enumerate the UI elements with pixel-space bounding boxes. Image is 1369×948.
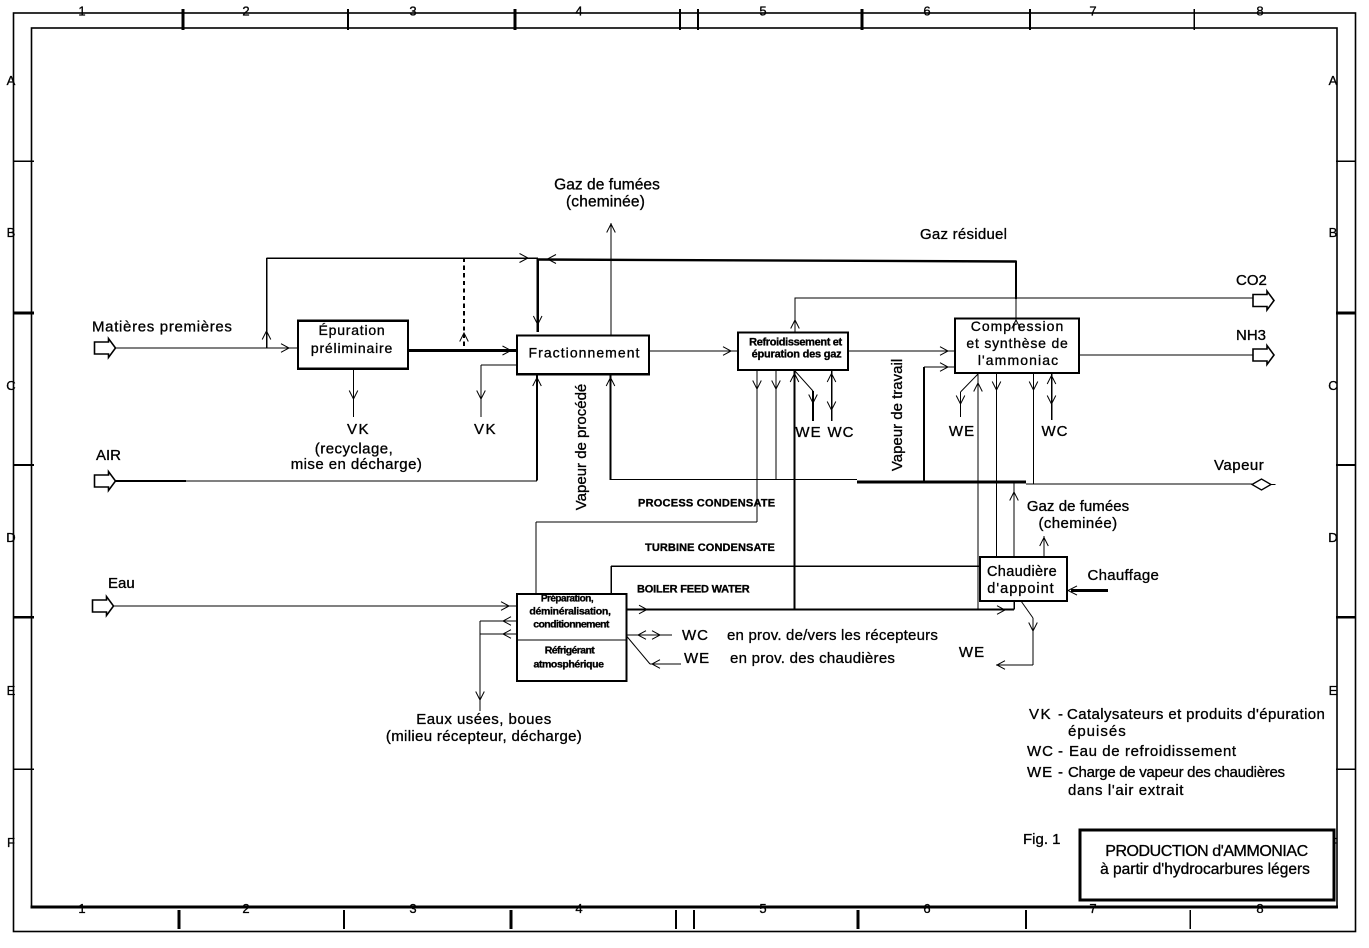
wire drop into Fractionnement top	[533, 259, 542, 332]
wire NH3 line	[1079, 354, 1253, 356]
label PROCESS CONDENSATE	[638, 498, 775, 510]
svg-text:WE: WE	[949, 423, 975, 440]
wire steam header thick segment	[857, 481, 1026, 484]
label Gaz de fumees lower	[1027, 498, 1129, 515]
svg-text:A: A	[7, 73, 16, 88]
label Matieres premieres	[92, 319, 233, 336]
wire steam header right segment	[1026, 483, 1252, 485]
left ruler zone letter B	[7, 225, 16, 240]
bottom ruler zone number 3	[409, 901, 416, 916]
label cheminee top	[566, 194, 645, 211]
label Vapeur right	[1214, 457, 1264, 474]
left ruler tick at y=161	[14, 160, 34, 162]
wire steam header mid segment	[611, 479, 858, 481]
box Refroidissement et epuration des gaz	[738, 333, 848, 371]
svg-text:WC: WC	[1042, 423, 1069, 440]
svg-text:Matières premières: Matières premières	[92, 319, 233, 336]
wire Refroidissement to Compression	[848, 347, 955, 356]
label BOILER FEED WATER	[637, 584, 750, 596]
output block arrow CO2	[1253, 291, 1274, 310]
legend VK line2	[1068, 723, 1127, 740]
svg-text:3: 3	[409, 4, 416, 19]
top ruler zone number 5	[759, 4, 766, 19]
wire Chauffage into Chaudiere	[1068, 586, 1108, 595]
legend WE line1	[1027, 764, 1285, 781]
label Gaz de fumees top	[554, 177, 660, 194]
svg-text:Préparation,: Préparation,	[541, 594, 594, 605]
box Fractionnement	[517, 336, 649, 375]
bottom ruler tick at x=515	[510, 910, 513, 929]
top ruler tick at x=862	[861, 9, 864, 30]
svg-text:B: B	[7, 225, 16, 240]
svg-text:Épuration: Épuration	[319, 322, 386, 338]
svg-text:-: -	[1058, 764, 1063, 781]
svg-text:Gaz résiduel: Gaz résiduel	[920, 226, 1007, 243]
wire drop Compression to Chaudiere	[992, 373, 1001, 557]
svg-text:(cheminée): (cheminée)	[566, 194, 645, 211]
input block arrow AIR	[95, 472, 116, 491]
svg-text:Vapeur de procédé: Vapeur de procédé	[573, 384, 590, 510]
legend VK line1	[1029, 706, 1325, 723]
bottom ruler tick at x=183	[178, 910, 181, 929]
top ruler zone number 8	[1256, 4, 1263, 19]
label WE near Chaudiere	[959, 644, 985, 661]
svg-text:(recyclage,: (recyclage,	[315, 441, 393, 458]
svg-text:Eau de refroidissement: Eau de refroidissement	[1069, 743, 1237, 760]
label VK under Epuration	[347, 421, 370, 438]
left ruler tick at y=313	[14, 312, 34, 315]
svg-text:(milieu récepteur, décharge): (milieu récepteur, décharge)	[386, 728, 582, 745]
svg-text:A: A	[1329, 73, 1338, 88]
wire Vapeur de travail riser	[924, 363, 955, 481]
svg-text:1: 1	[78, 901, 85, 916]
left ruler zone letter E	[7, 683, 16, 698]
wire Fractionnement to Refroidissement	[649, 347, 738, 356]
wire drop Compression to steam header	[1029, 373, 1038, 484]
svg-text:Vapeur de travail: Vapeur de travail	[889, 359, 906, 471]
top ruler zone number 7	[1089, 4, 1096, 19]
svg-text:-: -	[1058, 706, 1063, 723]
right ruler zone letter B	[1329, 225, 1338, 240]
top ruler tick at x=515	[514, 9, 517, 30]
svg-text:PROCESS CONDENSATE: PROCESS CONDENSATE	[638, 498, 775, 510]
svg-text:Vapeur: Vapeur	[1214, 457, 1264, 474]
label Chauffage	[1088, 567, 1160, 584]
label Vapeur de travail (rotated)	[889, 359, 906, 471]
svg-text:8: 8	[1256, 901, 1263, 916]
label WE en prov chaudieres	[684, 650, 895, 667]
label TURBINE CONDENSATE	[645, 542, 775, 554]
wire WE diagonal into Preparation	[627, 636, 682, 668]
text Compression	[966, 318, 1068, 368]
wire steam riser into Fractionnement	[606, 374, 615, 480]
top ruler zone number 3	[409, 4, 416, 19]
label WC under Compression	[1042, 423, 1069, 440]
svg-text:6: 6	[923, 4, 930, 19]
wire waste water left stub 2	[480, 630, 517, 639]
right ruler tick at y=161	[1336, 160, 1355, 162]
svg-text:Catalysateurs et produits d'ép: Catalysateurs et produits d'épuration	[1067, 706, 1325, 723]
wire VK stub left of Fractionnement	[477, 365, 517, 417]
svg-text:Gaz de fumées: Gaz de fumées	[1027, 498, 1129, 515]
label Gaz residuel	[920, 226, 1007, 243]
svg-text:WC: WC	[1027, 743, 1054, 760]
left ruler zone letter C	[6, 378, 15, 393]
label recyclage	[315, 441, 393, 458]
label Eaux usees boues	[416, 711, 551, 728]
svg-text:déminéralisation,: déminéralisation,	[529, 606, 611, 618]
label mise en decharge	[291, 456, 423, 473]
bottom ruler tick at x=862	[857, 910, 860, 929]
divider Preparation box	[517, 639, 627, 641]
text Refroidissement	[749, 337, 842, 361]
svg-text:8: 8	[1256, 4, 1263, 19]
svg-text:à partir d'hydrocarbures léger: à partir d'hydrocarbures légers	[1100, 861, 1310, 878]
svg-text:PRODUCTION d'AMMONIAC: PRODUCTION d'AMMONIAC	[1105, 843, 1308, 860]
svg-text:CO2: CO2	[1236, 272, 1267, 289]
label VK under Fractionnement stub	[474, 421, 497, 438]
svg-text:D: D	[1328, 530, 1337, 545]
right ruler zone letter F	[1329, 835, 1337, 850]
svg-text:préliminaire: préliminaire	[311, 340, 393, 356]
wire BFW riser to Refroidissement (thick)	[790, 370, 799, 609]
bottom ruler tick at x=698	[693, 910, 695, 929]
wire VK stub under Epuration	[349, 369, 358, 417]
top ruler zone number 2	[242, 4, 249, 19]
bottom ruler zone number 8	[1256, 901, 1263, 916]
top ruler tick at x=1194	[1193, 9, 1195, 30]
left ruler tick at y=617	[14, 616, 34, 619]
svg-text:Charge de vapeur des chaudière: Charge de vapeur des chaudières	[1068, 764, 1285, 781]
wire chimney from Fractionnement	[607, 223, 616, 336]
svg-text:AIR: AIR	[96, 447, 121, 464]
inner border thick bottom edge	[31, 905, 1339, 908]
left ruler zone letter F	[7, 835, 15, 850]
svg-text:dans l'air extrait: dans l'air extrait	[1068, 782, 1184, 799]
right ruler zone letter A	[1329, 73, 1338, 88]
label WC en prov recepteurs	[682, 627, 938, 644]
left ruler tick at y=465	[14, 464, 34, 466]
svg-text:Refroidissement et: Refroidissement et	[749, 337, 842, 349]
dashed bypass line	[460, 258, 469, 350]
svg-text:4: 4	[575, 4, 582, 19]
wire WC stub under Refroidissement	[827, 370, 836, 421]
wire air riser into Fractionnement	[533, 374, 542, 480]
top ruler tick at x=1030	[1029, 9, 1031, 30]
right ruler zone letter E	[1329, 683, 1338, 698]
wire WE riser Compression to BFW line	[974, 373, 983, 609]
bottom ruler tick at x=348	[343, 910, 345, 929]
svg-text:WC: WC	[828, 424, 855, 441]
bottom ruler zone number 2	[242, 901, 249, 916]
svg-text:Chauffage: Chauffage	[1088, 567, 1160, 584]
svg-text:en prov. de/vers les récepteur: en prov. de/vers les récepteurs	[727, 627, 938, 644]
box Chaudiere d appoint	[980, 557, 1067, 601]
label WC under Refroidissement	[828, 424, 855, 441]
wire recycle header left segment	[267, 257, 539, 259]
left ruler zone letter A	[7, 73, 16, 88]
svg-text:VK: VK	[1029, 706, 1052, 723]
svg-text:C: C	[6, 378, 15, 393]
svg-text:en prov. des chaudières: en prov. des chaudières	[730, 650, 895, 667]
svg-text:WE: WE	[684, 650, 710, 667]
svg-text:WE: WE	[959, 644, 985, 661]
svg-text:BOILER FEED WATER: BOILER FEED WATER	[637, 584, 750, 596]
label NH3	[1236, 327, 1266, 344]
bottom ruler tick at x=1030	[1025, 910, 1027, 929]
svg-text:conditionnement: conditionnement	[533, 619, 610, 631]
svg-text:Chaudière: Chaudière	[987, 564, 1057, 580]
wire Matieres premieres to Epuration	[116, 344, 299, 353]
svg-text:B: B	[1329, 225, 1338, 240]
text Refrigerant atmospherique	[533, 645, 604, 671]
svg-text:C: C	[1328, 378, 1337, 393]
title block box	[1080, 830, 1334, 900]
label AIR	[96, 447, 121, 464]
top ruler tick at x=183	[182, 9, 185, 30]
svg-text:E: E	[7, 683, 16, 698]
svg-text:WE: WE	[1027, 764, 1053, 781]
output diamond Vapeur	[1252, 479, 1276, 490]
bottom ruler zone number 5	[759, 901, 766, 916]
wire waste water left stub 1	[480, 617, 517, 626]
box Preparation demineralisation conditionnement	[517, 594, 627, 681]
svg-text:d'appoint: d'appoint	[987, 581, 1054, 597]
label milieu recepteur	[386, 728, 582, 745]
svg-text:VK: VK	[474, 421, 497, 438]
svg-text:4: 4	[575, 901, 582, 916]
title block text	[1100, 843, 1310, 878]
text Fractionnement	[529, 345, 641, 361]
svg-text:Eau: Eau	[108, 575, 135, 592]
svg-text:mise en décharge): mise en décharge)	[291, 456, 423, 473]
wire Refroidissement to CO2 riser	[791, 298, 800, 333]
wire CO2 line	[795, 297, 1253, 299]
wire AIR thick stub	[116, 480, 187, 482]
svg-text:WC: WC	[682, 627, 709, 644]
box Compression et synthese de l ammoniac	[955, 319, 1079, 374]
wire WE branch from Compression	[956, 374, 978, 417]
bottom ruler tick at x=680	[675, 910, 677, 929]
svg-text:VK: VK	[347, 421, 370, 438]
svg-text:7: 7	[1089, 4, 1096, 19]
wire process condensate line	[536, 522, 757, 594]
wire WE branch from Chaudiere	[996, 601, 1037, 669]
svg-text:6: 6	[923, 901, 930, 916]
label Eau	[108, 575, 135, 592]
svg-text:épuisés: épuisés	[1068, 723, 1127, 740]
svg-text:NH3: NH3	[1236, 327, 1266, 344]
wire turbine condensate line	[611, 566, 980, 594]
top ruler tick at x=680	[679, 9, 681, 30]
legend WC	[1027, 743, 1237, 760]
left ruler zone letter D	[6, 530, 15, 545]
wire boiler feed water line (thick)	[627, 601, 1015, 614]
top ruler tick at x=348	[347, 9, 349, 30]
svg-text:2: 2	[242, 901, 249, 916]
svg-text:Fractionnement: Fractionnement	[529, 345, 641, 361]
input block arrow Eau	[93, 597, 114, 616]
label cheminee lower	[1038, 515, 1117, 532]
svg-text:épuration des gaz: épuration des gaz	[752, 349, 842, 361]
svg-text:E: E	[1329, 683, 1338, 698]
wire WC double arrow line	[627, 631, 673, 640]
bottom ruler zone number 6	[923, 901, 930, 916]
label WE under Compression	[949, 423, 975, 440]
output block arrow NH3	[1253, 346, 1274, 365]
bottom ruler tick at x=1194	[1189, 910, 1191, 929]
svg-text:Fig. 1: Fig. 1	[1023, 831, 1061, 848]
arrowhead on header pointing left	[548, 255, 557, 264]
box Epuration preliminaire	[298, 321, 408, 369]
svg-text:(cheminée): (cheminée)	[1038, 515, 1117, 532]
svg-text:Gaz de fumées: Gaz de fumées	[554, 177, 660, 194]
svg-text:1: 1	[78, 4, 85, 19]
svg-text:TURBINE CONDENSATE: TURBINE CONDENSATE	[645, 542, 775, 554]
wire recycle riser at Epuration	[262, 258, 271, 348]
arrowhead on header pointing right	[520, 254, 529, 263]
legend WE line2	[1068, 782, 1184, 799]
wire WC stub under Compression	[1047, 373, 1056, 420]
wire AIR line to Fractionnement riser	[186, 480, 537, 482]
svg-text:-: -	[1058, 743, 1063, 760]
svg-text:F: F	[7, 835, 15, 850]
svg-text:3: 3	[409, 901, 416, 916]
label Fig 1	[1023, 831, 1061, 848]
svg-text:WE: WE	[795, 424, 821, 441]
text Epuration preliminaire	[311, 322, 393, 356]
svg-text:Compression: Compression	[971, 318, 1064, 334]
svg-text:2: 2	[242, 4, 249, 19]
svg-text:l'ammoniac: l'ammoniac	[978, 352, 1059, 368]
svg-text:D: D	[6, 530, 15, 545]
svg-text:5: 5	[759, 901, 766, 916]
wire Eau to Preparation	[114, 602, 518, 611]
label Vapeur de procede (rotated)	[573, 384, 590, 510]
wire residual gas header right segment	[538, 260, 1016, 262]
top ruler tick at x=698	[697, 9, 699, 30]
left ruler tick at y=769	[14, 768, 34, 770]
svg-text:et synthèse de: et synthèse de	[966, 335, 1068, 351]
svg-text:Eaux usées, boues: Eaux usées, boues	[416, 711, 551, 728]
right ruler tick at y=769	[1336, 768, 1355, 770]
label WE under Refroidissement	[795, 424, 821, 441]
wire arrow to Gaz de fumees label	[1040, 536, 1049, 557]
right ruler tick at y=617	[1336, 616, 1355, 619]
wire waste water drop	[476, 621, 485, 711]
bottom ruler zone number 1	[78, 901, 85, 916]
right ruler zone letter C	[1328, 378, 1337, 393]
svg-text:Réfrigérant: Réfrigérant	[545, 645, 596, 657]
wire condensate drop 1 (process)	[753, 370, 762, 522]
input block arrow Matieres premieres	[95, 339, 116, 358]
wire condensate drop 2	[772, 370, 781, 480]
wire WE branch from Refroidissement	[795, 371, 817, 421]
wire Epuration to Fractionnement (thick)	[408, 346, 517, 355]
top ruler zone number 6	[923, 4, 930, 19]
right ruler tick at y=465	[1336, 464, 1355, 466]
wire chimney from Chaudiere	[1010, 483, 1019, 557]
wire residual gas riser thick part	[1015, 261, 1017, 300]
right ruler zone letter D	[1328, 530, 1337, 545]
wire residual gas riser thin part	[1012, 299, 1021, 329]
top ruler zone number 4	[575, 4, 582, 19]
bottom ruler zone number 7	[1089, 901, 1096, 916]
svg-text:7: 7	[1089, 901, 1096, 916]
bottom ruler zone number 4	[575, 901, 582, 916]
top ruler zone number 1	[78, 4, 85, 19]
text Chaudiere d appoint	[987, 564, 1057, 597]
right ruler tick at y=313	[1336, 312, 1355, 315]
svg-text:5: 5	[759, 4, 766, 19]
text Preparation	[529, 594, 611, 631]
svg-text:atmosphérique: atmosphérique	[533, 659, 604, 671]
label CO2	[1236, 272, 1267, 289]
